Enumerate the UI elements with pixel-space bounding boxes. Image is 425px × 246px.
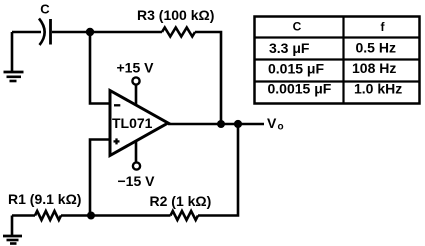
svg-text:−15 V: −15 V	[118, 173, 156, 189]
svg-text:0.015 μF: 0.015 μF	[268, 61, 324, 77]
svg-text:C: C	[293, 20, 302, 34]
svg-text:R2 (1 kΩ): R2 (1 kΩ)	[150, 193, 212, 209]
svg-text:o: o	[278, 122, 284, 133]
svg-text:V: V	[267, 115, 277, 131]
svg-text:3.3 μF: 3.3 μF	[269, 40, 310, 56]
svg-text:+15 V: +15 V	[117, 60, 155, 76]
svg-text:C: C	[40, 2, 50, 17]
svg-text:0.5 Hz: 0.5 Hz	[356, 40, 396, 56]
svg-text:R1 (9.1 kΩ): R1 (9.1 kΩ)	[8, 191, 81, 207]
svg-text:TL071: TL071	[112, 115, 153, 131]
svg-text:0.0015 μF: 0.0015 μF	[268, 81, 332, 97]
svg-text:1.0 kHz: 1.0 kHz	[354, 81, 402, 97]
svg-text:108 Hz: 108 Hz	[352, 60, 396, 76]
svg-text:R3 (100 kΩ): R3 (100 kΩ)	[137, 7, 214, 23]
